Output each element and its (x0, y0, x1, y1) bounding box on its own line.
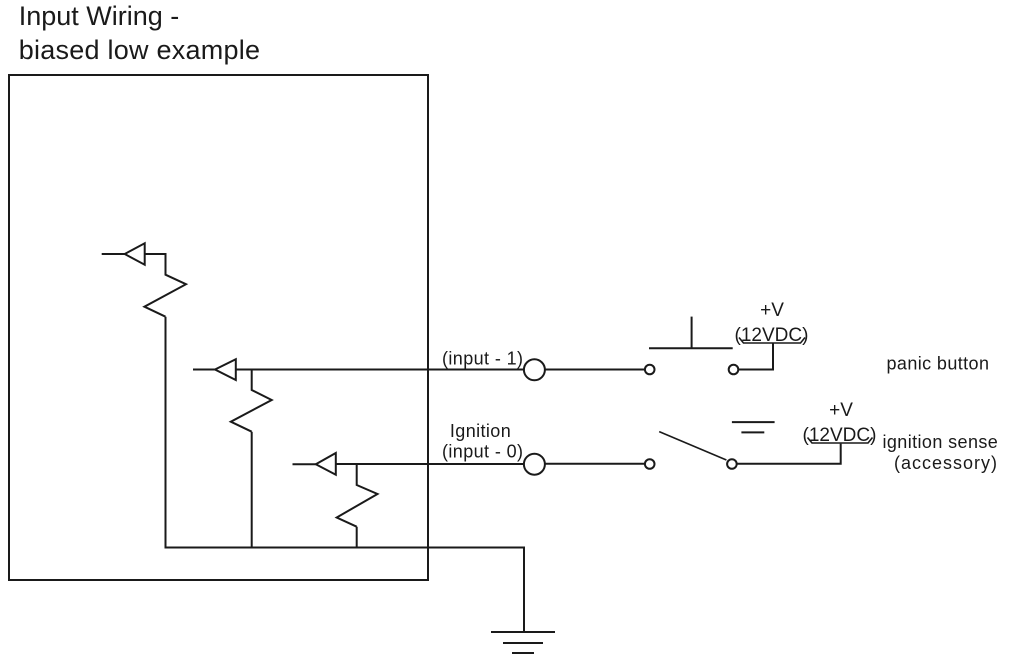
wire U2 output to terminal input-1 (236, 369, 524, 371)
switch S2 contact right (727, 459, 737, 469)
switch S2 upper throw contact (732, 422, 775, 432)
+V supply label (ignition) (803, 400, 877, 446)
terminal input-0 (524, 454, 545, 475)
pushbutton S1 contact left (645, 365, 655, 375)
wire ground bus (165, 547, 525, 549)
svg-text:(accessory): (accessory) (894, 453, 998, 473)
wire U3 output to terminal input-0 (336, 463, 524, 465)
switch S2 contact left (645, 459, 655, 469)
buffer U1 (125, 243, 145, 264)
wire ground bus down to ground (523, 547, 525, 633)
pushbutton S1 actuator bar (649, 347, 733, 349)
wire R3 bottom to ground bus (356, 527, 358, 548)
svg-text:+V: +V (829, 400, 853, 421)
wire input of buffer U1 (102, 253, 125, 255)
svg-text:Input Wiring -: Input Wiring - (19, 1, 180, 31)
resistor R1 (144, 253, 186, 317)
svg-text:panic button: panic button (887, 354, 990, 374)
wire R2 bottom to ground bus (251, 432, 253, 548)
title "Input Wiring - biased low example" (19, 1, 261, 65)
pushbutton S1 plunger (691, 317, 693, 349)
buffer U3 (316, 453, 336, 475)
resistor R3 (337, 464, 378, 527)
wire pushbutton S1 to +V supply (738, 343, 773, 370)
buffer U2 (215, 359, 236, 380)
device enclosure box (9, 75, 428, 580)
wire output of U1 to resistor R1 (145, 253, 166, 255)
svg-text:Ignition: Ignition (450, 421, 511, 441)
wire terminal input-1 to pushbutton S1 (545, 369, 645, 371)
svg-text:+V: +V (760, 300, 784, 321)
ground (491, 632, 555, 653)
svg-text:(input - 1): (input - 1) (442, 349, 523, 369)
switch S2 lever (659, 432, 726, 460)
terminal input-1 (524, 359, 545, 380)
wire input of buffer U2 (193, 369, 215, 371)
svg-text:ignition sense: ignition sense (883, 432, 999, 452)
wire switch S2 to +V supply (737, 444, 841, 464)
+V supply underline (panic) (739, 338, 805, 344)
+V supply label (panic) (735, 300, 809, 346)
wire input of buffer U3 (293, 463, 316, 465)
pushbutton S1 contact right (729, 365, 739, 375)
+V supply underline (ignition) (808, 438, 873, 444)
svg-text:biased low example: biased low example (19, 35, 261, 65)
wire terminal input-0 to switch S2 (545, 463, 645, 465)
resistor R2 (231, 370, 272, 432)
wire R1 bottom to ground bus (165, 317, 167, 548)
svg-text:(input - 0): (input - 0) (442, 441, 523, 461)
